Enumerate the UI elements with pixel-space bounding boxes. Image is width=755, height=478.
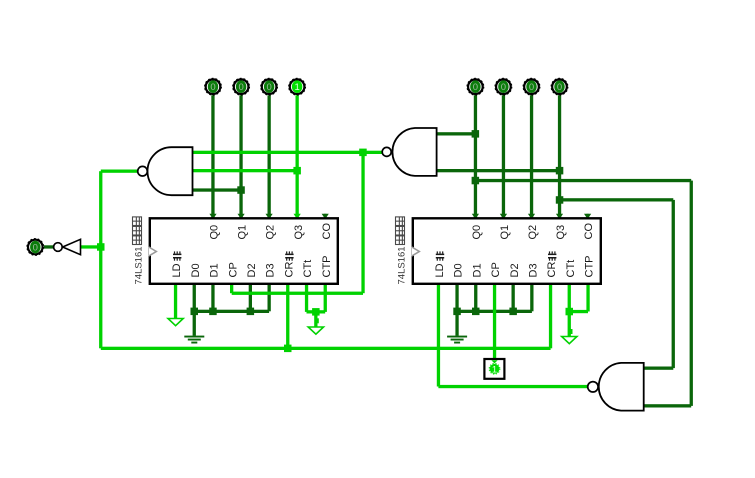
svg-text:0: 0 (33, 242, 38, 253)
svg-text:Q3: Q3 (555, 225, 567, 240)
svg-text:D0: D0 (453, 263, 465, 277)
svg-text:D2: D2 (509, 263, 521, 277)
svg-text:D1: D1 (471, 263, 483, 277)
svg-text:74LS161: 74LS161 (397, 246, 408, 284)
svg-text:CR: CR (546, 262, 558, 278)
svg-text:1: 1 (492, 364, 497, 375)
svg-text:1: 1 (294, 82, 299, 93)
svg-text:CTP: CTP (584, 256, 596, 278)
svg-text:Q3: Q3 (293, 225, 305, 240)
svg-text:D0: D0 (190, 263, 202, 277)
svg-text:LD: LD (171, 263, 183, 277)
svg-text:0: 0 (266, 82, 271, 93)
svg-text:0: 0 (210, 82, 215, 93)
svg-text:Q1: Q1 (237, 225, 249, 240)
svg-text:CP: CP (490, 262, 502, 277)
svg-text:CTP: CTP (321, 256, 333, 278)
svg-text:Q2: Q2 (527, 225, 539, 240)
svg-text:D1: D1 (209, 263, 221, 277)
svg-text:CR: CR (283, 262, 295, 278)
svg-text:LD: LD (434, 263, 446, 277)
svg-text:0: 0 (501, 82, 506, 93)
svg-text:CTt: CTt (565, 260, 577, 278)
svg-text:0: 0 (529, 82, 534, 93)
svg-text:CTt: CTt (302, 260, 314, 278)
svg-text:Q1: Q1 (499, 225, 511, 240)
svg-text:D2: D2 (246, 263, 258, 277)
svg-text:Q2: Q2 (265, 225, 277, 240)
svg-text:D3: D3 (265, 263, 277, 277)
svg-text:Q0: Q0 (471, 225, 483, 240)
svg-text:CO: CO (321, 223, 333, 240)
svg-text:0: 0 (473, 82, 478, 93)
svg-text:Q0: Q0 (209, 225, 221, 240)
svg-text:0: 0 (238, 82, 243, 93)
svg-text:0: 0 (557, 82, 562, 93)
svg-text:CO: CO (583, 223, 595, 240)
svg-text:74LS161: 74LS161 (134, 246, 145, 284)
svg-text:CP: CP (227, 262, 239, 277)
svg-text:D3: D3 (528, 263, 540, 277)
